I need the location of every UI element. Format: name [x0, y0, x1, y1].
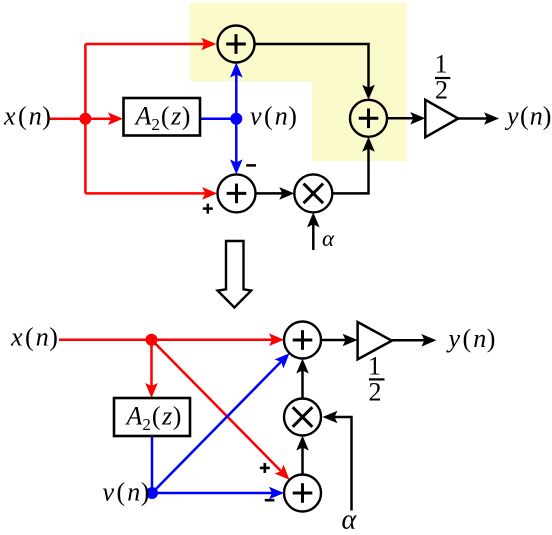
svg-text:y(n): y(n): [504, 102, 551, 131]
svg-text:α: α: [322, 226, 335, 251]
svg-text:1: 1: [368, 351, 381, 380]
svg-text:A2(z): A2(z): [134, 102, 191, 135]
svg-text:y(n): y(n): [446, 324, 496, 353]
svg-text:A2(z): A2(z): [125, 402, 182, 435]
svg-text:2: 2: [369, 378, 382, 407]
svg-text:2: 2: [435, 76, 448, 105]
svg-text:1: 1: [435, 50, 448, 79]
svg-text:α: α: [342, 505, 358, 535]
